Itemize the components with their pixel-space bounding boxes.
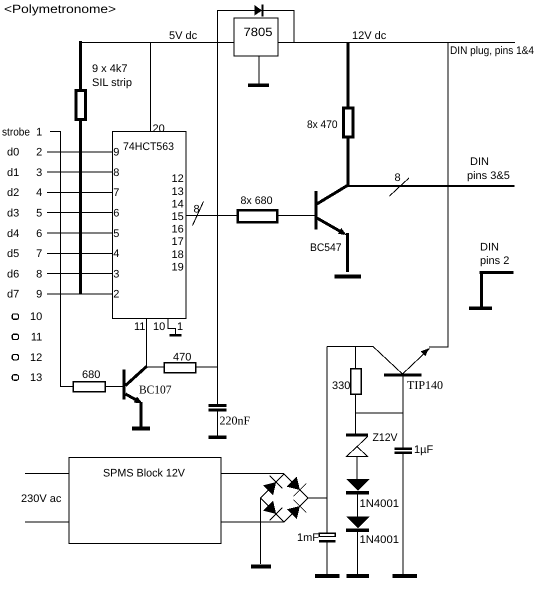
ground diode chain bbox=[347, 574, 370, 578]
resistor R2 470 bbox=[164, 363, 196, 373]
wire base diagonal bbox=[373, 347, 403, 375]
wire d4 to IC bbox=[47, 232, 113, 234]
wire 1mF to ground bbox=[326, 542, 328, 575]
svg-text:12: 12 bbox=[172, 173, 184, 185]
wire bridge - to ground bbox=[260, 498, 262, 564]
wire strobe stub bbox=[50, 131, 61, 133]
svg-text:11: 11 bbox=[31, 332, 42, 344]
ground bridge bbox=[251, 564, 271, 568]
bus slash 8 (IC side) bbox=[193, 202, 204, 226]
svg-text:8: 8 bbox=[194, 204, 200, 216]
wire D6 to ground bbox=[357, 532, 359, 575]
svg-text:220nF: 220nF bbox=[220, 414, 251, 428]
transistor Q2 BC107 collector bbox=[126, 367, 147, 386]
capacitor C3 1mF bbox=[319, 533, 335, 536]
svg-text:d4: d4 bbox=[7, 228, 19, 240]
ground pin 10 bbox=[170, 334, 182, 337]
diode D6 1N4001 bbox=[346, 517, 370, 529]
svg-text:1: 1 bbox=[177, 321, 183, 333]
svg-text:7: 7 bbox=[113, 187, 119, 199]
wire d6 to IC bbox=[47, 273, 113, 275]
svg-text:d7: d7 bbox=[7, 289, 19, 301]
svg-text:3: 3 bbox=[113, 268, 119, 280]
resistor R3 330 bbox=[351, 369, 362, 395]
svg-text:8: 8 bbox=[395, 172, 401, 184]
wire BC107 emitter to ground bbox=[140, 402, 143, 427]
ground BC107 bbox=[132, 427, 150, 431]
svg-text:15: 15 bbox=[172, 211, 184, 223]
wire 5V rail bbox=[80, 42, 234, 44]
wire 8x680 to BC547 base bbox=[278, 215, 315, 217]
svg-text:13: 13 bbox=[172, 186, 184, 198]
resistor R1 680 bbox=[73, 382, 105, 392]
wire pin 11 down bbox=[146, 319, 148, 368]
svg-text:d2: d2 bbox=[7, 187, 19, 199]
wire raw12V to TIP base bbox=[327, 346, 374, 348]
wire raw12V to 330 bbox=[355, 347, 357, 370]
svg-text:16: 16 bbox=[172, 224, 184, 236]
svg-text:18: 18 bbox=[172, 249, 184, 261]
wire d0 to IC bbox=[47, 151, 113, 153]
wire TIP emitter down bbox=[402, 376, 404, 448]
svg-text:8: 8 bbox=[36, 268, 42, 280]
transistor Q2 BC107 emitter bbox=[126, 394, 140, 402]
svg-text:1N4001: 1N4001 bbox=[360, 498, 400, 510]
svg-text:680: 680 bbox=[82, 369, 100, 381]
transistor Q1 BC547 emitter bbox=[316, 218, 344, 234]
svg-text:TIP140: TIP140 bbox=[407, 378, 443, 392]
svg-text:4: 4 bbox=[113, 248, 119, 260]
svg-text:13: 13 bbox=[30, 372, 42, 384]
wire TIP to DIN corner bbox=[429, 346, 449, 348]
wire SPMS to bridge top bbox=[221, 473, 284, 475]
bus slash 8 (DIN side) bbox=[390, 178, 410, 196]
wire mains input top bbox=[25, 473, 69, 475]
svg-text:BC107: BC107 bbox=[139, 383, 172, 397]
svg-text:1: 1 bbox=[36, 127, 42, 139]
wire IC outputs to 8x680 bbox=[186, 215, 237, 217]
svg-text:d5: d5 bbox=[7, 248, 19, 260]
wire 5V to pin 20 bbox=[150, 42, 152, 131]
svg-text:DIN plug, pins 1&4: DIN plug, pins 1&4 bbox=[450, 45, 534, 57]
transistor Q3 TIP140 emitter arrow bbox=[403, 349, 430, 375]
regulator U2 7805 box bbox=[234, 18, 278, 56]
svg-text:DIN: DIN bbox=[470, 156, 489, 168]
svg-text:2: 2 bbox=[36, 147, 42, 159]
svg-text:8: 8 bbox=[113, 167, 119, 179]
wire 12V to 8x470 bbox=[347, 42, 350, 108]
svg-text:10: 10 bbox=[30, 311, 42, 323]
bridge diode lower-right bbox=[287, 506, 300, 519]
svg-text:11: 11 bbox=[134, 321, 145, 333]
svg-text:12: 12 bbox=[30, 352, 42, 364]
svg-text:strobe: strobe bbox=[2, 127, 30, 139]
svg-text:pins 2: pins 2 bbox=[480, 255, 509, 267]
svg-text:12V dc: 12V dc bbox=[352, 30, 387, 42]
svg-text:9: 9 bbox=[113, 147, 119, 159]
wire d7 to IC bbox=[47, 293, 113, 295]
bridge diode upper-right bbox=[287, 477, 300, 490]
wire pin 10 to ground bbox=[167, 319, 169, 330]
capacitor C1 220nF bbox=[209, 404, 227, 407]
wire zener to D5 bbox=[356, 457, 358, 480]
svg-text:330: 330 bbox=[332, 380, 350, 392]
resistor RN1 9x4k7 SIL bbox=[76, 91, 86, 120]
svg-text:6: 6 bbox=[113, 208, 119, 220]
wire D5 to D6 bbox=[357, 495, 359, 518]
SPMS block box bbox=[69, 458, 221, 544]
bridge diode upper-left bbox=[263, 482, 276, 495]
wire d2 to IC bbox=[47, 191, 113, 193]
bridge rectifier outline bbox=[261, 474, 309, 522]
wire diode bypass top bbox=[217, 10, 294, 12]
wire 330 to zener bbox=[355, 394, 357, 434]
wire 470 to 220nF rail bbox=[196, 366, 219, 368]
transistor Q1 BC547 base bar bbox=[315, 191, 318, 230]
ground 220nF bbox=[209, 436, 227, 440]
transistor Q1 BC547 collector bbox=[316, 185, 349, 205]
wire DIN plug pins 1&4 bbox=[447, 42, 449, 347]
svg-text:DIN: DIN bbox=[480, 242, 499, 254]
bridge diode lower-left bbox=[263, 501, 276, 514]
capacitor C2 1uF bbox=[395, 448, 413, 451]
diode D5 1N4001 bbox=[346, 479, 370, 491]
svg-text:7805: 7805 bbox=[244, 25, 273, 39]
ground 1mF bbox=[315, 574, 340, 578]
svg-text:19: 19 bbox=[172, 261, 184, 273]
wire BC547 emitter to ground bbox=[346, 233, 349, 272]
wire raw12V rail bbox=[326, 347, 328, 535]
wire SPMS to bridge bottom bbox=[221, 521, 284, 523]
resistor R 8x470 bbox=[344, 108, 354, 137]
transistor Q3 TIP140 base bar bbox=[384, 374, 422, 377]
wire d3 to IC bbox=[47, 212, 113, 214]
svg-text:17: 17 bbox=[172, 236, 184, 248]
svg-text:d0: d0 bbox=[7, 147, 19, 159]
svg-text:SIL strip: SIL strip bbox=[92, 77, 132, 89]
svg-text:74HCT563: 74HCT563 bbox=[123, 141, 174, 153]
svg-text:1N4001: 1N4001 bbox=[360, 534, 400, 546]
transistor Q2 BC107 base bar bbox=[123, 370, 126, 400]
svg-text:9 x 4k7: 9 x 4k7 bbox=[92, 63, 127, 75]
svg-text:SPMS Block 12V: SPMS Block 12V bbox=[103, 468, 186, 480]
svg-text:3: 3 bbox=[36, 167, 42, 179]
svg-text:230V ac: 230V ac bbox=[21, 493, 62, 505]
svg-text:8x 680: 8x 680 bbox=[241, 195, 273, 207]
svg-text:Z12V: Z12V bbox=[373, 432, 399, 444]
wire 220nF to ground bbox=[217, 411, 219, 436]
svg-text:d3: d3 bbox=[7, 208, 19, 220]
wire 12V rail bbox=[278, 42, 515, 44]
wire bridge + output bbox=[308, 497, 328, 499]
diode D3 bypass bbox=[255, 5, 263, 16]
open pin circle 11 bbox=[12, 334, 18, 339]
wire 8x470 to collector node bbox=[347, 137, 350, 186]
ground DIN pin 2 bbox=[469, 307, 492, 311]
wire 7805 ground lead bbox=[258, 56, 260, 84]
wire 680 to BC107 base bbox=[105, 386, 123, 388]
wire 330 node to emitter bbox=[356, 412, 403, 414]
ground 7805 bbox=[248, 84, 269, 88]
svg-text:7: 7 bbox=[36, 248, 42, 260]
svg-text:5: 5 bbox=[113, 228, 119, 240]
IC U1 74HCT563 box bbox=[113, 132, 187, 319]
wire pin11 node to 470 bbox=[147, 366, 165, 368]
svg-text:1mF: 1mF bbox=[297, 532, 319, 544]
svg-text:BC547: BC547 bbox=[310, 242, 342, 254]
wire d5 to IC bbox=[47, 252, 113, 254]
wire strobe to 680 bbox=[61, 386, 74, 388]
open pin circle 12 bbox=[12, 355, 18, 360]
svg-text:6: 6 bbox=[36, 228, 42, 240]
wire strobe vertical bbox=[60, 131, 62, 387]
svg-text:5: 5 bbox=[36, 208, 42, 220]
svg-text:9: 9 bbox=[36, 289, 42, 301]
resistor R 8x680 bbox=[238, 210, 278, 222]
wire 5V vertical rail to 220nF bbox=[217, 10, 219, 404]
svg-text:470: 470 bbox=[173, 352, 191, 364]
svg-text:5V dc: 5V dc bbox=[169, 30, 198, 42]
wire d1 to IC bbox=[47, 171, 113, 173]
zener D4 Z12V bbox=[346, 434, 368, 437]
wire bypass right drop bbox=[293, 10, 295, 43]
svg-text:<Polymetronome>: <Polymetronome> bbox=[4, 2, 116, 16]
svg-text:4: 4 bbox=[36, 187, 42, 199]
svg-text:d1: d1 bbox=[7, 167, 19, 179]
wire mains input bottom bbox=[25, 521, 69, 523]
svg-text:1µF: 1µF bbox=[414, 444, 433, 456]
svg-text:2: 2 bbox=[113, 289, 119, 301]
wire data bus (SIL common) bbox=[79, 41, 82, 90]
ground BC547 emitter bbox=[335, 275, 362, 279]
svg-text:8x 470: 8x 470 bbox=[307, 119, 338, 131]
svg-text:d6: d6 bbox=[7, 268, 19, 280]
wire collector to DIN pins 3&5 bbox=[348, 185, 515, 187]
svg-text:14: 14 bbox=[172, 198, 184, 210]
svg-text:pins 3&5: pins 3&5 bbox=[467, 170, 510, 182]
wire DIN pin 2 horizontal bbox=[480, 271, 514, 274]
wire DIN pin 2 vertical bbox=[480, 271, 483, 307]
open pin circle 10 bbox=[12, 314, 18, 319]
svg-text:10: 10 bbox=[153, 321, 165, 333]
ground 1uF bbox=[393, 574, 418, 578]
wire 1uF to ground bbox=[402, 454, 404, 575]
open pin circle 13 bbox=[12, 375, 18, 380]
